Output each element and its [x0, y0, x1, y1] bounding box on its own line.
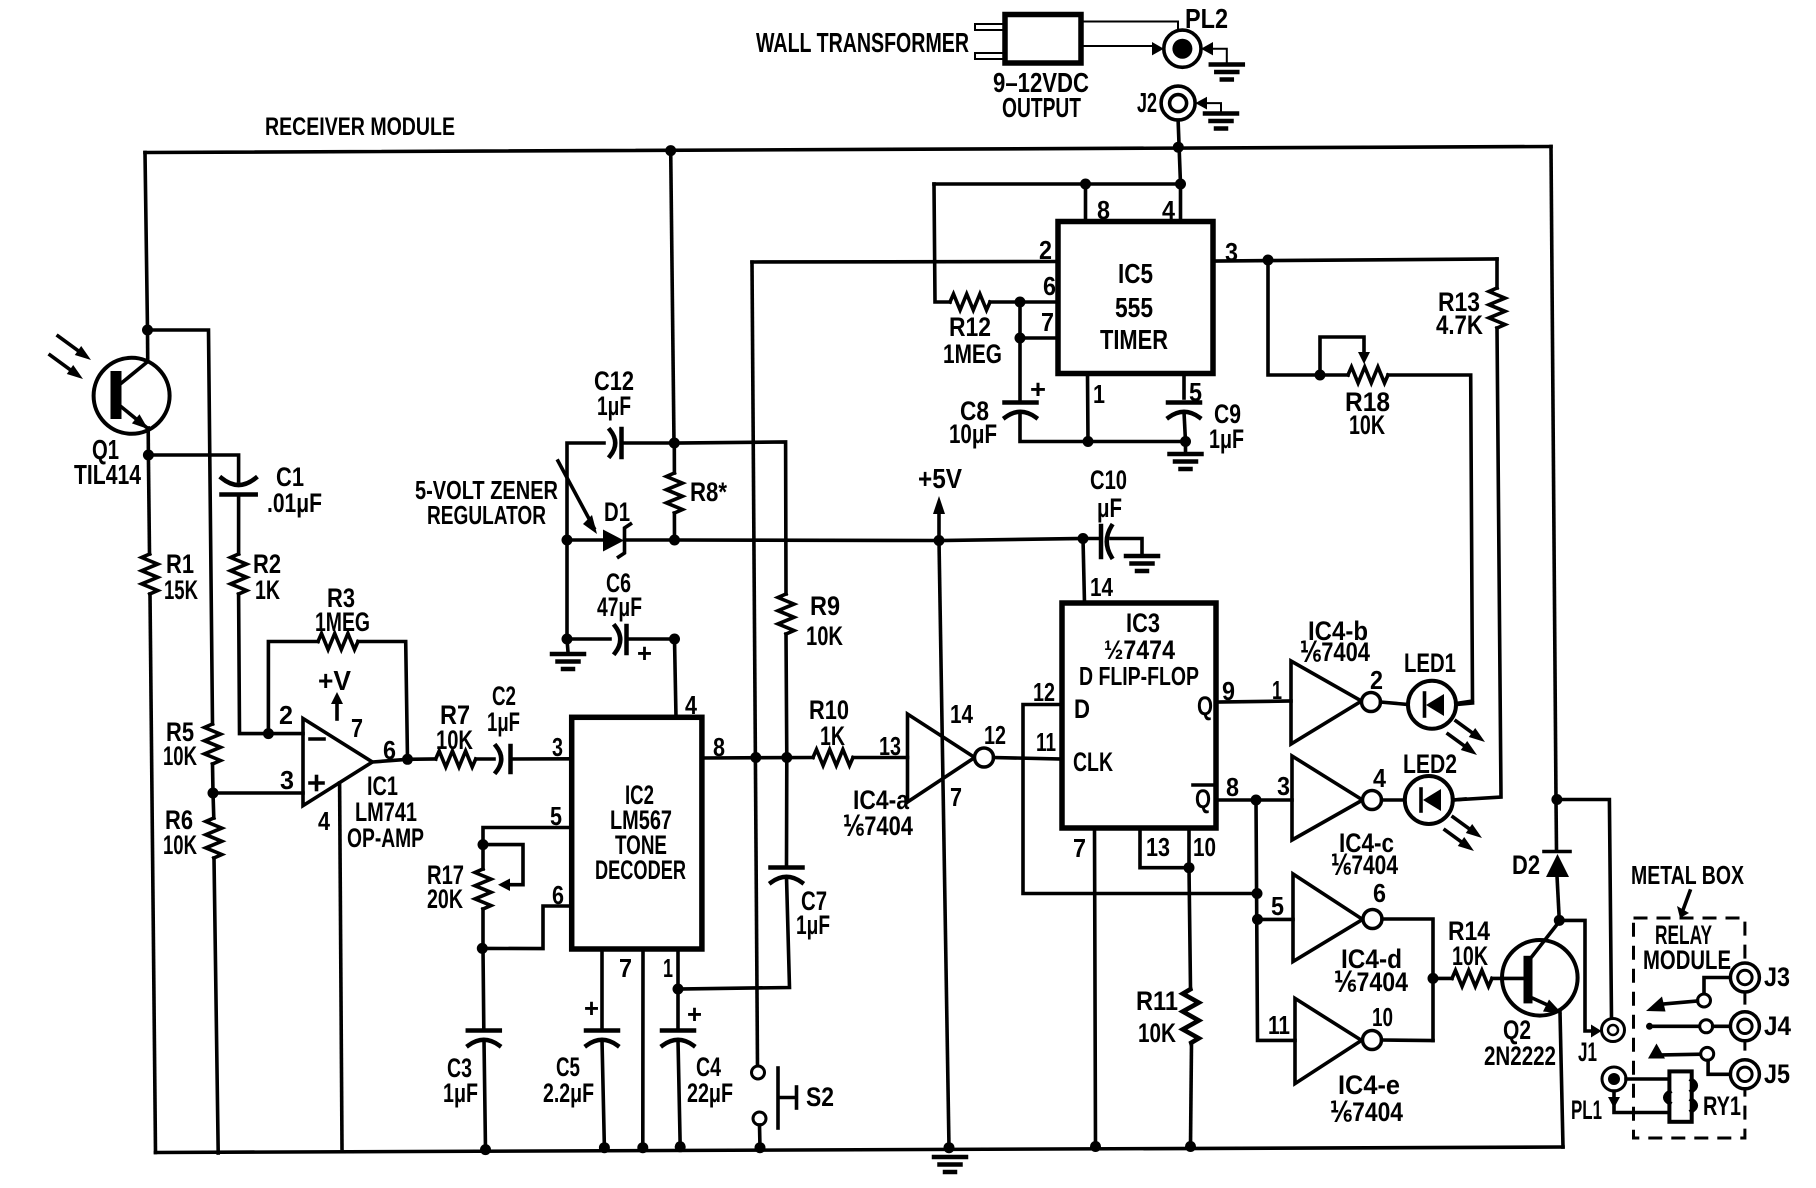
svg-text:D1: D1 — [604, 497, 630, 527]
svg-text:.01μF: .01μF — [267, 488, 322, 518]
svg-text:MODULE: MODULE — [1643, 945, 1731, 975]
svg-text:1μF: 1μF — [1209, 424, 1244, 454]
svg-text:3: 3 — [1225, 237, 1238, 267]
svg-text:10K: 10K — [436, 725, 473, 755]
svg-text:WALL TRANSFORMER: WALL TRANSFORMER — [756, 27, 969, 58]
svg-text:R8*: R8* — [690, 477, 727, 507]
svg-text:+5V: +5V — [918, 463, 962, 494]
svg-text:D: D — [1074, 694, 1090, 724]
svg-text:4: 4 — [1373, 763, 1386, 793]
svg-text:LED2: LED2 — [1403, 749, 1457, 779]
svg-text:J1: J1 — [1578, 1037, 1597, 1067]
svg-text:DECODER: DECODER — [595, 855, 686, 885]
svg-text:J2: J2 — [1137, 87, 1157, 118]
svg-text:D2: D2 — [1512, 850, 1540, 880]
svg-text:7: 7 — [950, 782, 962, 812]
svg-text:11: 11 — [1036, 727, 1056, 757]
svg-text:S2: S2 — [806, 1082, 834, 1112]
svg-text:+: + — [687, 999, 702, 1029]
svg-text:TIMER: TIMER — [1100, 324, 1168, 355]
svg-text:3: 3 — [1277, 771, 1290, 801]
svg-text:OP-AMP: OP-AMP — [347, 823, 424, 853]
svg-text:4: 4 — [685, 690, 697, 720]
svg-text:10K: 10K — [163, 741, 197, 771]
svg-text:2: 2 — [1039, 235, 1052, 265]
svg-text:TIL414: TIL414 — [74, 459, 141, 490]
svg-text:6: 6 — [552, 880, 564, 910]
svg-text:2: 2 — [279, 700, 293, 730]
svg-text:Q: Q — [1197, 691, 1213, 721]
svg-text:3: 3 — [552, 732, 563, 762]
svg-text:J3: J3 — [1764, 962, 1790, 992]
svg-text:9: 9 — [1222, 676, 1235, 706]
svg-text:7: 7 — [1073, 833, 1086, 863]
svg-text:10: 10 — [1372, 1002, 1393, 1032]
svg-text:1: 1 — [1093, 379, 1105, 409]
svg-text:13: 13 — [879, 731, 901, 761]
svg-text:47μF: 47μF — [597, 592, 642, 622]
svg-text:11: 11 — [1268, 1010, 1290, 1040]
svg-text:OUTPUT: OUTPUT — [1002, 92, 1081, 123]
svg-text:14: 14 — [1090, 572, 1113, 602]
svg-text:13: 13 — [1146, 832, 1170, 862]
svg-text:1MEG: 1MEG — [315, 607, 370, 637]
svg-text:μF: μF — [1097, 493, 1122, 523]
svg-text:2.2μF: 2.2μF — [543, 1078, 594, 1108]
svg-text:PL2: PL2 — [1185, 3, 1228, 34]
svg-text:4: 4 — [1162, 195, 1175, 225]
svg-text:1K: 1K — [820, 721, 845, 751]
svg-text:1MEG: 1MEG — [943, 339, 1002, 369]
svg-text:+V: +V — [318, 665, 351, 696]
svg-text:10K: 10K — [806, 621, 843, 651]
svg-text:+: + — [1030, 374, 1046, 404]
svg-text:R12: R12 — [949, 312, 991, 342]
svg-text:6: 6 — [1043, 271, 1056, 301]
svg-text:1μF: 1μF — [796, 910, 830, 940]
svg-text:Q: Q — [1195, 784, 1211, 814]
svg-text:IC3: IC3 — [1126, 608, 1160, 638]
svg-text:⅙7404: ⅙7404 — [1330, 1097, 1403, 1127]
svg-text:R11: R11 — [1136, 986, 1178, 1016]
svg-text:D FLIP-FLOP: D FLIP-FLOP — [1079, 661, 1199, 691]
svg-text:8: 8 — [1097, 195, 1110, 225]
svg-text:5: 5 — [1271, 891, 1284, 921]
svg-text:J4: J4 — [1764, 1011, 1791, 1041]
svg-text:RY1: RY1 — [1703, 1091, 1741, 1121]
svg-text:7: 7 — [619, 953, 632, 983]
svg-text:⅙7404: ⅙7404 — [1334, 967, 1408, 997]
svg-text:REGULATOR: REGULATOR — [427, 500, 546, 530]
svg-text:+: + — [584, 993, 599, 1023]
svg-text:7: 7 — [1041, 307, 1054, 337]
svg-text:1: 1 — [1272, 675, 1282, 705]
svg-text:⅙7404: ⅙7404 — [1300, 637, 1370, 667]
svg-text:4: 4 — [318, 806, 330, 836]
svg-text:20K: 20K — [427, 884, 463, 914]
svg-text:METAL BOX: METAL BOX — [1631, 860, 1744, 890]
svg-text:⅙7404: ⅙7404 — [843, 811, 913, 841]
svg-text:2: 2 — [1370, 665, 1383, 695]
svg-text:6: 6 — [1373, 878, 1386, 908]
svg-text:+: + — [637, 638, 652, 668]
svg-text:RECEIVER MODULE: RECEIVER MODULE — [265, 113, 455, 141]
svg-text:C10: C10 — [1090, 465, 1127, 495]
svg-text:12: 12 — [1033, 677, 1055, 707]
svg-text:1K: 1K — [255, 575, 280, 605]
svg-text:PL1: PL1 — [1571, 1095, 1602, 1125]
svg-text:4.7K: 4.7K — [1436, 310, 1483, 340]
svg-text:IC5: IC5 — [1118, 258, 1153, 289]
svg-text:8: 8 — [713, 732, 725, 762]
svg-text:10μF: 10μF — [949, 419, 997, 449]
svg-text:10: 10 — [1193, 832, 1216, 862]
svg-text:CLK: CLK — [1073, 747, 1113, 777]
svg-text:1μF: 1μF — [443, 1078, 478, 1108]
svg-text:10K: 10K — [1452, 941, 1488, 971]
svg-text:7: 7 — [351, 713, 363, 743]
svg-text:10K: 10K — [163, 830, 197, 860]
svg-text:1: 1 — [663, 953, 673, 983]
svg-text:R9: R9 — [810, 591, 840, 621]
svg-text:1μF: 1μF — [597, 391, 631, 421]
svg-text:⅙7404: ⅙7404 — [1331, 850, 1398, 880]
svg-text:12: 12 — [984, 720, 1006, 750]
svg-text:8: 8 — [1226, 772, 1239, 802]
svg-text:555: 555 — [1115, 292, 1153, 323]
svg-text:5: 5 — [550, 801, 562, 831]
svg-text:10K: 10K — [1138, 1018, 1176, 1048]
svg-text:1μF: 1μF — [487, 707, 520, 737]
svg-text:10K: 10K — [1349, 410, 1385, 440]
svg-text:IC4-e: IC4-e — [1338, 1070, 1400, 1100]
svg-text:3: 3 — [280, 765, 294, 795]
svg-text:15K: 15K — [164, 575, 198, 605]
svg-text:LED1: LED1 — [1404, 648, 1456, 678]
svg-text:22μF: 22μF — [687, 1078, 733, 1108]
svg-text:2N2222: 2N2222 — [1484, 1041, 1556, 1071]
svg-text:14: 14 — [950, 699, 973, 729]
svg-text:J5: J5 — [1764, 1059, 1790, 1089]
